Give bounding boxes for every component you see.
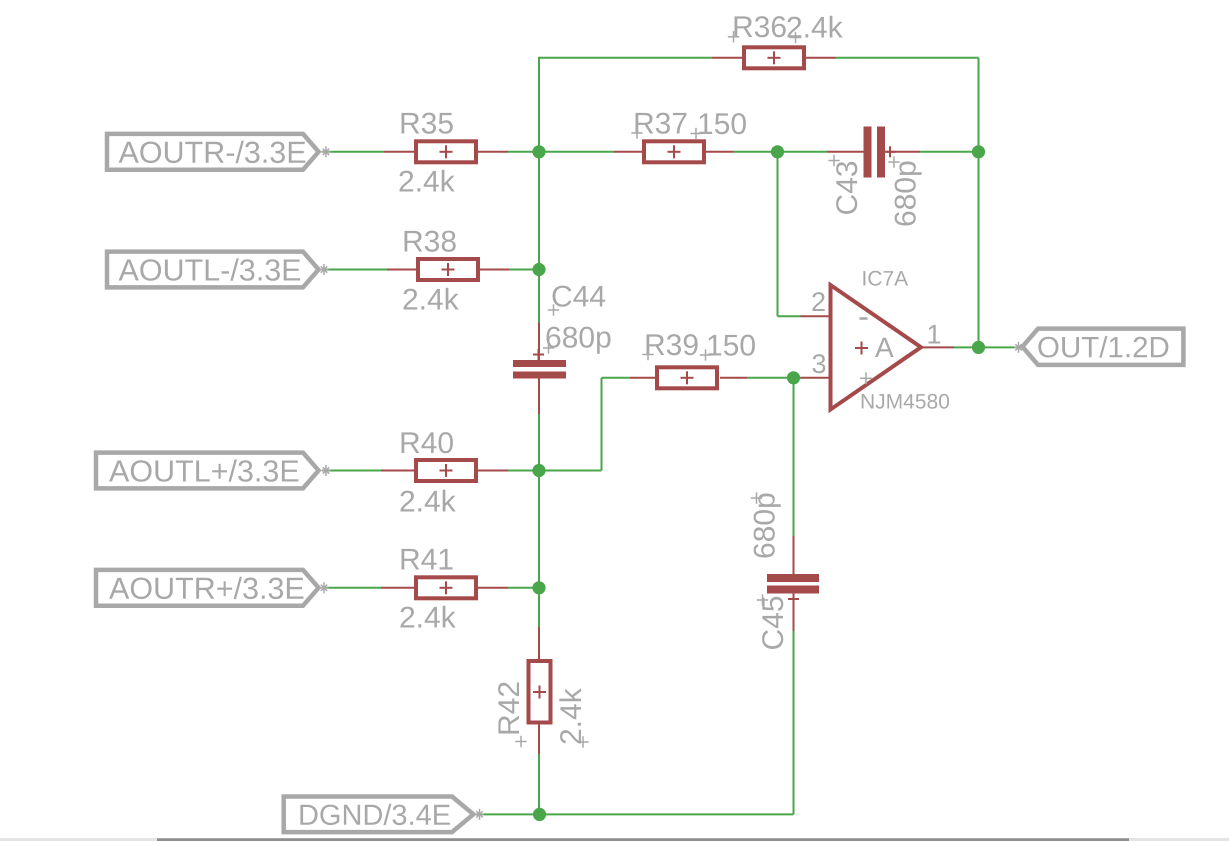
resistor R42 leads xyxy=(538,627,540,754)
resistor R37 leads xyxy=(614,151,733,153)
wire R39 row left segment xyxy=(602,377,631,379)
wire left vertical row3-row4 xyxy=(538,471,540,589)
resistor R39 xyxy=(657,367,717,388)
wire row1 R35 to junction xyxy=(508,151,539,153)
net label AOUTR-/3.3E xyxy=(107,134,319,170)
wire C45 to DGND row xyxy=(793,631,795,814)
net label AOUTL+/3.3E xyxy=(96,453,319,489)
op-amp IC7A pin 2 lead xyxy=(801,315,830,317)
resistor R40 leads xyxy=(381,470,508,472)
capacitor C44 value label 680p xyxy=(543,327,611,354)
net label OUT/1.2D xyxy=(1022,329,1183,365)
junction row1 x777 xyxy=(771,145,784,158)
wire vertical x601 up to R39 row xyxy=(601,378,603,471)
resistor R40 value label 2.4k xyxy=(401,490,456,512)
resistor R36 leads xyxy=(712,57,836,59)
op-amp origin cross red plus xyxy=(855,342,868,355)
capacitor C43 value label 680p xyxy=(888,156,921,225)
resistor R36 value label 2.4k xyxy=(788,16,843,43)
net label AOUTR+ origin star xyxy=(320,582,329,593)
resistor R38 xyxy=(418,259,478,280)
wire junction C to pin3 xyxy=(794,377,801,379)
wire row1 R37 to junction B xyxy=(733,151,778,153)
op-amp pin number 2 xyxy=(812,292,824,311)
capacitor C45 xyxy=(767,574,819,605)
capacitor C44 name label xyxy=(548,286,605,316)
resistor R35 name label xyxy=(402,113,453,134)
wire inverting net horizontal to pin2 xyxy=(778,315,801,317)
wire row1 junction B to C43 xyxy=(778,151,828,153)
net label AOUTL-/3.3E xyxy=(107,252,319,288)
resistor R38 name label xyxy=(405,231,456,252)
resistor R39 value label 150 xyxy=(700,335,755,361)
op-amp pin number 1 xyxy=(929,325,941,344)
net label DGND origin star xyxy=(475,809,484,820)
wire row1 junction to R37 xyxy=(539,151,614,153)
resistor R35 leads xyxy=(384,151,508,153)
op-amp U1 IC7A triangle xyxy=(831,285,922,410)
resistor R40 name label xyxy=(402,432,453,453)
op-amp IC7A pin 3 lead xyxy=(801,377,830,379)
junction R39 row x793 xyxy=(787,371,800,384)
wire row3 from AOUTL+ label xyxy=(322,470,381,472)
resistor R36 name label xyxy=(728,16,786,42)
bottom scrollbar thumb xyxy=(157,838,1129,841)
resistor R41 xyxy=(416,577,476,598)
resistor R40 xyxy=(416,460,476,481)
junction row2 x539 xyxy=(532,263,545,276)
junction row1 x539 xyxy=(532,145,545,158)
wire row1 C43 to right vertical xyxy=(920,151,979,153)
bottom scrollbar track xyxy=(0,838,1229,841)
op-amp gate origin gray plus xyxy=(860,372,872,384)
net label AOUTL+ origin star xyxy=(322,465,331,476)
wire output junction to OUT label xyxy=(979,346,1016,348)
op-amp value label NJM4580 xyxy=(862,394,949,409)
capacitor C44 leads xyxy=(538,323,540,415)
junction row4 x539 xyxy=(532,581,545,594)
resistor R38 leads xyxy=(387,269,509,271)
wire row2 from AOUTL- label xyxy=(322,269,387,271)
op-amp IC7A pin 1 lead xyxy=(921,346,954,348)
resistor R37 xyxy=(644,141,704,162)
wire top feedback net left segment xyxy=(539,57,712,59)
wire output pin1 to junction xyxy=(954,346,979,348)
wire row3 junction to corner xyxy=(539,470,602,472)
wire DGND row xyxy=(476,813,794,815)
net label AOUTR- origin star xyxy=(322,146,331,157)
resistor R42 name label xyxy=(498,683,527,748)
resistor R36 xyxy=(744,47,804,68)
resistor R35 value label 2.4k xyxy=(400,170,455,192)
wire left vertical C44 to row3 xyxy=(538,414,540,471)
capacitor C45 value label 680p xyxy=(751,492,781,557)
resistor R39 leads xyxy=(630,377,747,379)
wire row1 from AOUTR- label xyxy=(322,151,384,153)
wire left vertical row2 to C44 xyxy=(538,270,540,323)
net label AOUTR+/3.3E xyxy=(96,570,319,606)
resistor R41 leads xyxy=(381,587,508,589)
capacitor C45 leads xyxy=(793,536,795,631)
resistor R41 value label 2.4k xyxy=(401,606,456,628)
wire top feedback net right segment xyxy=(836,57,979,59)
resistor R35 xyxy=(416,141,476,162)
wire R39 to junction C xyxy=(747,377,794,379)
op-amp gate name A xyxy=(875,338,894,357)
net label AOUTL- origin star xyxy=(320,264,329,275)
capacitor C43 name label xyxy=(828,155,857,214)
op-amp inverting input minus symbol xyxy=(860,317,868,320)
capacitor C45 name label xyxy=(757,594,784,649)
wire inverting net vertical x777 xyxy=(777,152,779,316)
capacitor C44 xyxy=(513,349,566,379)
wire row3 R40 to junction xyxy=(508,470,539,472)
wire row4 from AOUTR+ label xyxy=(322,587,381,589)
junction output x978 xyxy=(972,341,985,354)
wire row4 R41 to junction xyxy=(508,587,539,589)
resistor R42 value label 2.4k xyxy=(559,688,588,747)
resistor R38 value label 2.4k xyxy=(404,288,459,310)
net label DGND/3.4E xyxy=(284,797,474,833)
wire left vertical row1-row2 xyxy=(538,152,540,270)
resistor R39 name label xyxy=(642,334,697,360)
resistor R42 xyxy=(529,661,551,723)
op-amp name label IC7A xyxy=(863,271,908,286)
resistor R37 value label 150 xyxy=(690,113,746,139)
wire noninverting vertical to C45 xyxy=(793,378,795,536)
junction row1 x978 xyxy=(972,145,985,158)
wire left vertical bus x539 top xyxy=(538,57,540,152)
wire row2 R38 to junction xyxy=(508,269,539,271)
wire left vertical row4 to R42 xyxy=(538,588,540,627)
resistor R37 name label xyxy=(631,113,686,139)
net label OUT origin star xyxy=(1014,342,1023,353)
wire right vertical x978 xyxy=(978,58,980,348)
resistor R41 name label xyxy=(402,549,453,570)
capacitor C43 leads xyxy=(827,151,920,153)
capacitor C43 xyxy=(864,127,896,178)
junction DGND x539 xyxy=(533,808,546,821)
wire left vertical R42 to DGND row xyxy=(538,754,540,814)
junction row3 x539 xyxy=(532,464,545,477)
op-amp pin number 3 xyxy=(813,354,826,373)
